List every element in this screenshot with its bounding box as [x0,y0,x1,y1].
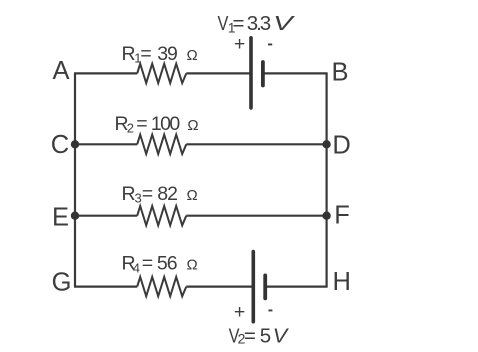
svg-text:=: = [244,324,256,347]
wire V2 to H [265,286,327,288]
resistor R1 value label [122,43,198,66]
resistor R3 [137,206,186,225]
svg-text:2: 2 [127,121,134,136]
V1 minus polarity mark [268,44,272,46]
svg-text:D: D [332,131,350,159]
svg-text:+: + [234,33,245,55]
svg-text:3.3: 3.3 [247,12,271,35]
source V2 value label [229,324,290,347]
svg-text:Ω: Ω [187,187,198,204]
wire E to R3 [74,215,137,217]
resistor R2 value label [115,113,199,136]
resistor R1 [137,64,186,83]
wire right vertical B-D-F-H [326,73,328,286]
node F junction dot [322,212,330,220]
svg-text:4: 4 [133,260,140,275]
svg-text:G: G [52,269,72,297]
svg-text:39: 39 [157,43,177,65]
wire A to R1 [74,72,137,74]
svg-text:82: 82 [157,183,177,205]
wire C to R2 [74,143,137,145]
svg-text:=: = [142,253,153,275]
svg-text:5: 5 [260,324,271,347]
svg-text:Ω: Ω [187,117,198,134]
wire R2 to D [186,143,327,145]
wire V1 to B [263,72,328,74]
wire R3 to F [186,215,327,217]
svg-text:=: = [140,43,151,65]
wire R1 to V1 [186,72,250,74]
svg-text:H: H [333,268,351,296]
resistor R4 value label [122,253,198,276]
svg-text:V: V [273,12,296,35]
resistor R3 value label [122,183,198,206]
node E junction dot [71,212,79,220]
battery V2 [253,252,265,322]
V2 minus polarity mark [268,310,272,312]
svg-text:R: R [122,183,136,205]
resistor R2 [137,135,186,154]
svg-text:V: V [273,324,290,347]
svg-text:56: 56 [157,253,177,275]
svg-text:3: 3 [135,191,142,206]
wire left vertical A-C-E-G [74,73,76,286]
svg-text:E: E [52,203,69,231]
svg-text:A: A [53,57,70,85]
wire G to R4 [74,286,137,288]
svg-text:C: C [51,131,69,159]
node C junction dot [71,140,79,148]
svg-text:Ω: Ω [187,47,198,64]
svg-text:F: F [334,201,350,229]
svg-text:100: 100 [151,113,180,135]
resistor R4 [137,277,186,296]
source V1 value label [218,12,296,36]
svg-text:=: = [142,183,153,205]
node D junction dot [322,140,330,148]
svg-text:=: = [136,113,147,135]
svg-text:Ω: Ω [187,257,198,274]
svg-text:=: = [233,12,245,35]
svg-text:+: + [234,301,245,323]
wire R4 to V2 [186,286,252,288]
svg-text:B: B [332,59,349,87]
battery V1 [251,38,263,108]
